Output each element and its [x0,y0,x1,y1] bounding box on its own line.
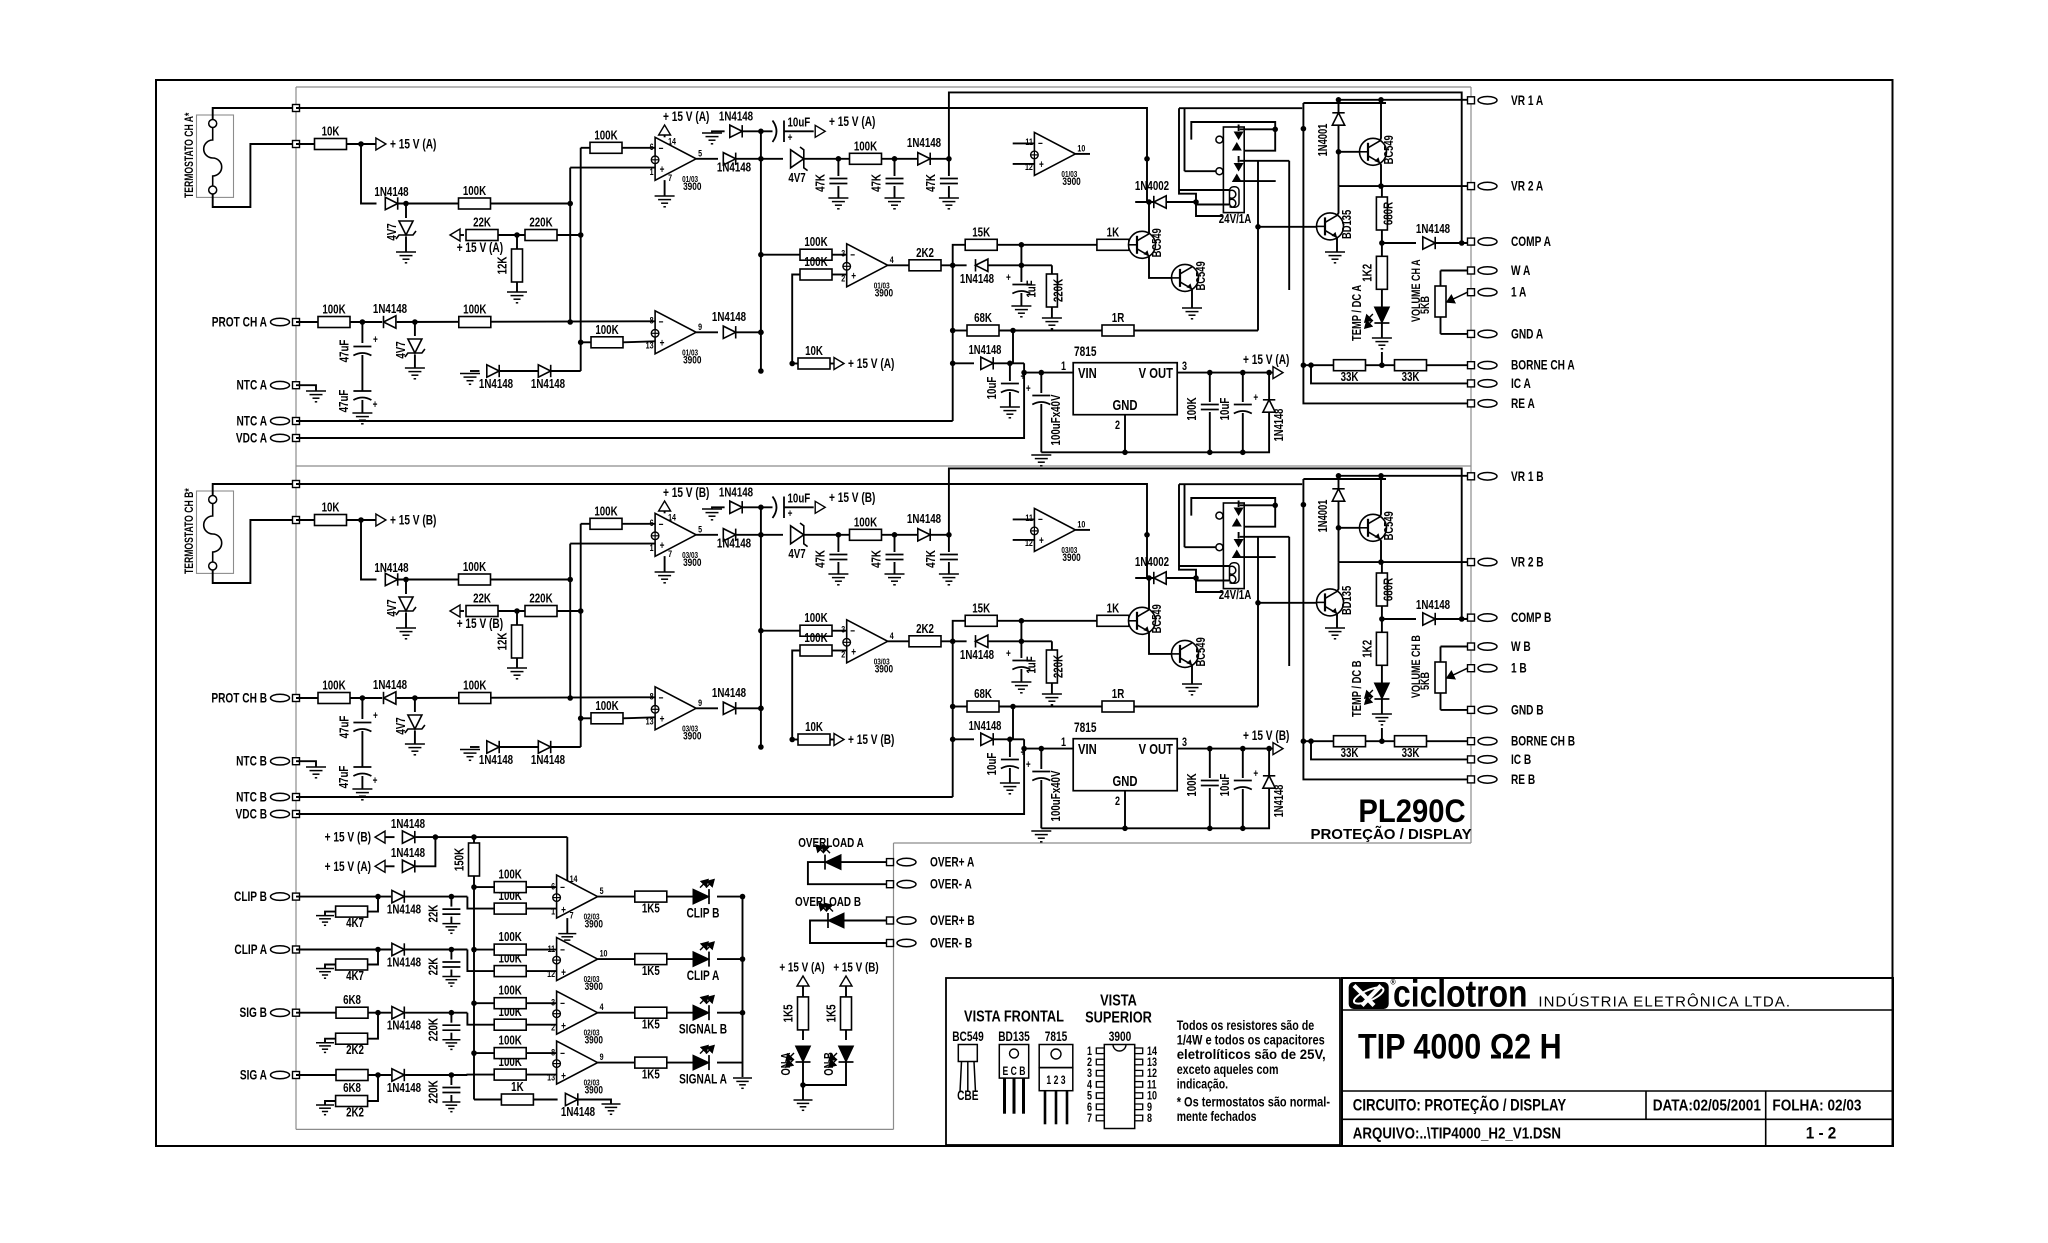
diode 1N4148 (PROT) [384,692,396,704]
bus square 10K row [293,517,300,524]
svg-text:4: 4 [600,1001,604,1012]
svg-text:6: 6 [551,881,555,892]
wire signal to +input [467,1013,494,1025]
svg-text:100K: 100K [594,129,618,143]
terminal 1 B [1468,665,1475,672]
svg-text:+ 15 V (B): + 15 V (B) [833,960,878,975]
svg-text:PL290C: PL290C [1358,793,1465,830]
wire relay drive [1196,202,1223,216]
capacitor 47K #3 [948,535,950,552]
svg-text:33K: 33K [1402,747,1420,761]
resistor 100K (pin1 path) [459,574,491,585]
resistor 12K [516,611,518,625]
svg-text:eletrolíticos são de 25V,: eletrolíticos são de 25V, [1177,1046,1326,1062]
svg-text:11: 11 [1025,136,1033,147]
resistor 220K [525,606,557,617]
ground (47uF) [352,788,372,790]
op-amp U4 third stage [655,687,696,730]
svg-text:CLIP B: CLIP B [234,889,267,905]
svg-text:220K: 220K [427,1080,441,1104]
op-amp (CLIP A) 02/03 3900 [557,938,598,981]
wire pair to divider bus [552,370,581,372]
resistor 10K (U4 feedback) [792,363,798,365]
svg-text:6: 6 [650,141,654,152]
svg-text:+: + [1006,648,1011,660]
wire U2 + from 10K row riser [792,651,800,740]
op-amp U3 (01/03 3900) comparator [1034,132,1075,175]
integrator node vertical bus [760,131,762,371]
svg-text:1: 1 [551,906,555,917]
wire 100K to U2 + [832,650,847,652]
resistor 68K [953,706,967,708]
ground (bias) [316,1104,334,1106]
svg-text:+: + [561,905,566,917]
terminal OVER- B [887,940,894,947]
op-amp U2 (01/03 3900) [847,244,888,287]
wire node to VIN riser [1012,331,1014,364]
wire contact 2 hook [1240,536,1290,538]
op-amp U1 (01/03 3900) [655,137,696,180]
svg-text:VR 2 A: VR 2 A [1511,178,1544,194]
power arrow + 15 V (A) regulator out [1273,367,1283,379]
svg-text:1N4148: 1N4148 [712,687,747,701]
svg-text:68K: 68K [974,312,992,326]
wire RE/BORNE riser [1303,103,1467,403]
svg-text:2K2: 2K2 [916,247,934,261]
terminal RE A [1468,400,1475,407]
svg-text:10uF: 10uF [788,492,811,506]
wire out to 1K5 [598,1062,635,1064]
resistor 100K (U2 -in) [800,249,832,260]
svg-text:−: − [659,519,664,531]
svg-text:GND: GND [1113,396,1138,413]
wire coil feeds [1179,189,1230,191]
svg-text:1uF: 1uF [1025,656,1039,673]
wire V OUT [1177,748,1273,750]
svg-text:1N4148: 1N4148 [387,1082,422,1096]
svg-text:TERMOSTATO CH A*: TERMOSTATO CH A* [184,113,196,198]
capacitor 47K #3 [948,159,950,176]
wire 15K to 1K [998,620,1098,622]
svg-text:VDC A: VDC A [236,430,267,446]
capacitor 100uFx40V [1040,373,1042,393]
LED CLIP B [693,889,709,904]
wire Q2 emitter to ground [1191,289,1193,308]
wire signal to +input [467,950,494,972]
svg-text:CLIP A: CLIP A [234,942,267,958]
wire OVER- B [810,921,887,944]
wire 2K2 out [941,264,967,266]
svg-text:5: 5 [698,523,702,534]
riser to BD135 base [1257,160,1259,331]
latch loop outer [1184,108,1186,171]
wire LED to bus [717,958,743,960]
svg-text:+: + [373,334,378,346]
svg-text:−: − [560,1048,565,1060]
svg-text:+ 15 V (B): + 15 V (B) [848,732,894,748]
capacitor 10uF (discharge) [773,497,777,519]
svg-text:10uF: 10uF [1219,774,1233,797]
svg-text:3900: 3900 [683,557,701,569]
resistor 1K5 (ON B) [841,997,852,1030]
svg-text:3900: 3900 [585,1085,603,1097]
svg-text:14: 14 [668,511,676,522]
wire 33K row [1303,364,1334,366]
LED SIGNAL B [693,1005,709,1020]
divider bus vertical [580,524,582,747]
wire relay to COMP riser [1288,537,1290,666]
svg-text:220K: 220K [427,1017,441,1041]
svg-text:7815: 7815 [1074,720,1097,736]
resistor 10K [296,143,315,145]
diode 1N4148 (filter) [918,153,930,165]
svg-text:1R: 1R [1112,688,1125,702]
transistor Q3 BC549 (latch) [1339,527,1360,529]
wire OVER- A [808,862,887,884]
svg-text:100K: 100K [499,868,523,882]
resistor 100K (+in) [494,1019,526,1030]
svg-text:1N4148: 1N4148 [712,311,747,325]
svg-text:+ 15 V (A): + 15 V (A) [1243,352,1289,368]
svg-text:1N4148: 1N4148 [1273,785,1287,818]
svg-text:10: 10 [1077,142,1085,153]
wire riser to 15K row [953,245,965,265]
resistor 1R [1102,701,1134,712]
diode 1N4148 (filter) [918,529,930,541]
wire to 6K8 [296,1012,336,1014]
wire to cap node [405,1012,467,1014]
svg-text:+: + [1026,759,1031,771]
IC 7815 regulator [1073,363,1177,415]
op-amp U2 (03/03 3900) [847,620,888,663]
svg-text:15K: 15K [972,602,990,616]
svg-text:OVERLOAD A: OVERLOAD A [798,836,864,851]
diode 1N4148 (thermostat sense) [385,573,397,585]
resistor 33K #2 [1395,736,1427,747]
diode 1N4148 (VIN clamp) [953,362,974,364]
diode 1N4148 (clamp) [976,259,988,271]
terminal GND B [1468,706,1475,713]
ground (BD135) [1325,627,1345,629]
capacitor 22K [450,897,452,907]
svg-text:NTC A: NTC A [236,413,267,429]
svg-text:47K: 47K [925,173,939,191]
svg-text:3900: 3900 [1062,552,1080,564]
svg-text:+: + [1253,392,1258,404]
wire BD135 collector to VR2 node [1337,186,1339,215]
svg-text:+ 15 V (A): + 15 V (A) [390,136,436,152]
svg-text:−: − [850,625,855,637]
wire to node [737,158,784,160]
volume pot 5KB [1440,271,1442,287]
svg-text:1N4148: 1N4148 [561,1106,596,1120]
svg-text:4V7: 4V7 [395,717,409,734]
power arrow + 15 V (B) [376,514,386,526]
svg-text:OVER- A: OVER- A [930,876,972,892]
svg-text:1: 1 [1061,736,1066,750]
svg-text:GND: GND [1113,772,1138,789]
power arrow + 15 V (A) [376,138,386,150]
wire V OUT [1177,372,1273,374]
ground (regulator) [1031,830,1051,832]
legend box [946,978,1340,1145]
svg-text:+: + [1026,383,1031,395]
svg-text:1N4148: 1N4148 [387,1020,422,1034]
wire 1K to Q1 base [1128,620,1130,622]
LED ON B [839,1046,854,1062]
svg-text:3900: 3900 [683,730,701,742]
svg-text:+: + [660,713,665,725]
diode 1N4148 (VIN clamp) [953,738,974,740]
svg-text:+: + [851,270,856,282]
LED OVERLOAD A [825,855,841,870]
capacitor 47K #2 [894,159,896,176]
ground pin7 [664,556,666,572]
resistor 100K (pin8) [459,317,491,328]
svg-text:TEMP / DC B: TEMP / DC B [1351,660,1365,717]
svg-text:2: 2 [1115,419,1120,433]
transistor Q4 BD135 [1317,589,1344,616]
resistor 1K5 [635,891,667,902]
svg-text:VISTA FRONTAL: VISTA FRONTAL [964,1008,1064,1026]
svg-text:33K: 33K [1341,747,1359,761]
svg-text:33K: 33K [1402,371,1420,385]
wire 1A wiper [1447,292,1468,302]
svg-text:+ 15 V (B): + 15 V (B) [325,829,371,845]
diode 1N4148 (SIG B) [392,1007,404,1019]
svg-text:12: 12 [1025,537,1033,548]
svg-text:3: 3 [551,997,555,1008]
wire contact 2 lower stub [1240,556,1276,558]
svg-text:1N4148: 1N4148 [717,537,752,551]
wire contact 2 lower stub [1240,180,1276,182]
resistor 6K8 [336,1070,368,1081]
svg-text:7: 7 [668,172,672,183]
relay 24V/1A [1223,503,1244,589]
svg-text:100K: 100K [499,985,523,999]
svg-text:W A: W A [1511,263,1531,279]
svg-text:1uF: 1uF [1025,280,1039,297]
svg-text:100K: 100K [1186,397,1200,421]
svg-text:47K: 47K [814,549,828,567]
ground (regulator) [1031,454,1051,456]
channel A boundary box (gray) [296,86,1471,88]
svg-text:5KB: 5KB [1419,672,1433,690]
svg-text:100K: 100K [463,679,487,693]
wire out to 1K5 [598,896,635,898]
wire BD135 emitter to ground [1336,237,1338,252]
grounded diode pair row [460,373,480,375]
zener 4V7 (top) [405,580,407,595]
svg-text:680R: 680R [1382,577,1396,601]
latch loop inner [1191,122,1275,151]
svg-text:3900: 3900 [585,919,603,931]
resistor 100K (-in) [494,998,526,1009]
ground (cap) [442,923,460,925]
resistor 100K (PROT) [318,693,350,704]
op-amp (SIGNAL B) 02/03 3900 [557,991,598,1034]
wire LED to bus [717,896,743,898]
terminal BORNE CH A [1468,362,1475,369]
svg-text:7815: 7815 [1045,1029,1068,1045]
resistor 100K (U2 +in) [800,645,832,656]
capacitor 220K [450,1013,452,1023]
ground (BD135) [1325,251,1345,253]
ground (12K) [507,291,527,293]
svg-text:100K: 100K [804,632,828,646]
terminal VR 2 B [1468,559,1475,566]
svg-text:+: + [851,646,856,658]
ground (4V7 PROT) [405,743,425,745]
wire NTC long [296,420,953,422]
diode 1N4148 (A rail) [402,860,414,872]
svg-text:+: + [1006,272,1011,284]
wire OVER+ A [841,861,887,863]
wire IC row [1311,741,1468,759]
resistor 150K [473,837,475,843]
svg-text:1N4148: 1N4148 [717,161,752,175]
svg-text:+: + [788,132,793,144]
wire relay drive [1196,578,1223,592]
wire 68K right [999,330,1102,332]
svg-text:1N4148: 1N4148 [907,137,942,151]
wire thermostat top to bus [213,484,296,496]
LED CLIP A [693,952,709,967]
svg-text:100K: 100K [499,1034,523,1048]
ground (12K) [507,667,527,669]
resistor 1K5 [635,1057,667,1068]
wire 1K5 to LED [667,958,693,960]
svg-text:SUPERIOR: SUPERIOR [1085,1009,1152,1027]
svg-text:+ 15 V (A): + 15 V (A) [848,356,894,372]
svg-text:10uF: 10uF [1219,398,1233,421]
wire out to 1K5 [598,1012,635,1014]
latch loop inner [1191,498,1275,527]
ground (4V7 top) [396,251,416,253]
svg-text:47K: 47K [925,549,939,567]
bus square top [293,481,300,488]
bottom display section boundary (gray) [893,843,895,1129]
terminal VR 1 B [1468,473,1475,480]
wire latch top feedback [949,92,1462,243]
zener 4V7 (top) [405,204,407,219]
svg-text:BC549: BC549 [1151,228,1165,257]
resistor 100K (pin8) [459,693,491,704]
svg-text:BC549: BC549 [952,1029,984,1045]
wire W row [1441,646,1468,648]
svg-text:10: 10 [600,948,608,959]
wire rail to -input [474,886,494,888]
svg-text:9: 9 [698,321,702,332]
op-amp U4 third stage [655,311,696,354]
svg-text:CLIP A: CLIP A [687,968,720,984]
wire W row [1441,270,1468,272]
svg-text:FOLHA: 02/03: FOLHA: 02/03 [1772,1098,1861,1115]
svg-text:+ 15 V (A): + 15 V (A) [325,858,371,874]
zener 4V7 (PROT) [414,322,416,336]
svg-text:1N4148: 1N4148 [969,720,1002,734]
channel A/B divider (gray) [296,465,1471,467]
LED SIGNAL A [693,1055,709,1070]
svg-text:1K5: 1K5 [782,1004,796,1022]
svg-text:6K8: 6K8 [343,1082,361,1096]
integrator node vertical bus [760,507,762,747]
capacitor 100K (vout) [1209,373,1211,402]
svg-text:1N4001: 1N4001 [1317,500,1331,533]
svg-text:1N4148: 1N4148 [907,513,942,527]
wire cap to +15V arrow [784,130,814,132]
svg-text:−: − [560,998,565,1010]
svg-text:IC B: IC B [1511,751,1532,767]
capacitor 1uF [1020,641,1022,658]
svg-text:10uF: 10uF [986,377,1000,400]
terminal VR 1 A [1468,97,1475,104]
svg-text:RE A: RE A [1511,395,1535,411]
svg-text:INDÚSTRIA ELETRÔNICA LTDA.: INDÚSTRIA ELETRÔNICA LTDA. [1538,993,1790,1010]
wire gnd to diode [712,131,725,133]
wire 10K to +15V arrow [346,143,378,145]
svg-text:9: 9 [600,1051,604,1062]
svg-text:3900: 3900 [585,981,603,993]
svg-text:1R: 1R [1112,312,1125,326]
diode 1N4001 [1338,476,1340,488]
resistor 2K2 [888,264,910,266]
resistor 2K2 (bias) [368,1075,378,1101]
wire 100K to U2 - [832,254,847,256]
wire 1A wiper [1447,668,1468,678]
svg-text:1N4148: 1N4148 [719,486,754,500]
wire diode to pin8 [397,320,655,323]
svg-text:8: 8 [551,1047,555,1058]
wire diode to zener node [399,203,459,205]
ground pin7 [664,180,666,196]
capacitor 47K #2 [894,535,896,552]
terminal IC A [1468,380,1475,387]
resistor 15K [965,615,997,626]
divider bus vertical [580,148,582,371]
diode 1N4001 [1338,100,1340,112]
wire U4 out to node bus [737,707,761,709]
LED cathode bus [742,897,744,1077]
wire U4 out [696,331,718,333]
wire U3 -in stub [1013,142,1035,144]
resistor 4K7 (bias) [368,950,378,965]
wire rail to CLIP B pin14 [566,837,568,882]
transistor Q2 BC549 [1172,640,1199,667]
svg-text:9: 9 [698,697,702,708]
wire Q3 collector [1380,476,1381,517]
wire diode to node [988,264,1052,266]
ground (bias) [316,1042,334,1044]
terminal OVER+ A [887,859,894,866]
wire VDC long to VIN riser [296,749,1024,814]
svg-text:2: 2 [841,648,845,659]
svg-text:ciclotron: ciclotron [1393,973,1528,1015]
wire PROT row [296,321,382,323]
svg-text:4K7: 4K7 [346,917,364,931]
resistor 1K5 [635,954,667,965]
svg-text:8: 8 [1147,1112,1152,1126]
svg-text:2: 2 [551,1022,555,1033]
wire tap down to diode row [361,144,377,204]
svg-text:1K5: 1K5 [642,902,660,916]
svg-text:1N4148: 1N4148 [531,378,566,392]
svg-text:NTC B: NTC B [236,789,267,805]
wire U4 out [696,707,718,709]
capacitor 10uF (vout) [1242,373,1244,402]
wire Q3 emitter to VR2 row [1380,163,1381,186]
op-amp U1 (03/03 3900) [655,513,696,556]
